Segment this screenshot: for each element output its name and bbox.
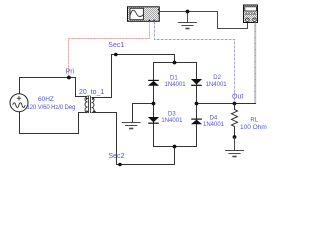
wire multimeter plus probe to Out node (gray): [254, 23, 256, 104]
svg-text:1N4001: 1N4001: [161, 118, 183, 124]
wire bridge top rail: [154, 62, 197, 64]
wire bridge left midpoint to ground: [133, 104, 155, 123]
transformer T1 primary winding: [85, 97, 88, 113]
wire bridge left rail: [153, 62, 155, 147]
svg-text:60HZ: 60HZ: [38, 96, 54, 103]
transformer T1 core: [89, 96, 91, 113]
ground (under resistor RL): [225, 137, 244, 157]
resistor RL 100 Ohm: [232, 104, 238, 138]
wire bridge right rail: [196, 62, 198, 147]
wire oscilloscope channel B probe to node Out (blue): [155, 22, 235, 104]
oscilloscope XSC1: [128, 7, 160, 21]
junction node Sec2: [118, 163, 122, 167]
svg-text:Out: Out: [232, 94, 243, 101]
svg-text:D3: D3: [168, 111, 176, 117]
junction bridge left midpoint: [152, 102, 156, 106]
svg-text:Sec2: Sec2: [108, 153, 124, 160]
AC source V1 120V 60Hz: [10, 94, 28, 112]
wire node Pri to transformer primary top: [69, 78, 88, 97]
diode D3: [148, 117, 159, 124]
wire secondary top via node Sec1 to bridge top: [92, 55, 175, 98]
junction node Pri: [67, 76, 71, 80]
svg-text:120 V/60 Hz/0 Deg: 120 V/60 Hz/0 Deg: [27, 105, 76, 111]
junction on bottom rail: [173, 145, 177, 149]
wire secondary bottom via node Sec2 to bridge bottom: [92, 113, 175, 165]
svg-text:1N4001: 1N4001: [165, 82, 187, 88]
svg-text:D1: D1: [170, 75, 178, 81]
svg-text:20_to_1: 20_to_1: [79, 89, 104, 96]
transformer T1 polarity arrows: [86, 97, 96, 113]
wire bridge bottom rail: [154, 146, 197, 148]
svg-text:1N4001: 1N4001: [203, 122, 225, 128]
svg-text:100 Ohm: 100 Ohm: [240, 124, 267, 131]
wire V1 plus terminal to node Pri: [20, 78, 69, 94]
transformer T1 secondary winding: [92, 98, 95, 113]
junction bridge right midpoint: [195, 102, 199, 106]
ground (top, oscilloscope/multimeter net): [178, 12, 197, 29]
diode D2: [191, 79, 202, 86]
junction node Out: [233, 102, 237, 106]
svg-text:1N4001: 1N4001: [206, 82, 228, 88]
junction node Sec1: [114, 53, 118, 57]
wire V1 minus terminal to transformer primary bottom: [20, 112, 88, 134]
wire oscilloscope ground terminal to ground and multimeter minus: [160, 12, 248, 29]
multimeter XMM1: [244, 5, 258, 23]
junction resistor bottom: [233, 135, 237, 139]
diode D1: [148, 80, 159, 86]
diode D4: [191, 119, 202, 125]
svg-text:RL: RL: [250, 117, 258, 123]
svg-text:Pri: Pri: [66, 69, 75, 76]
wire bridge right midpoint to Out node and multimeter: [197, 103, 257, 105]
junction on top rail: [173, 61, 177, 65]
svg-text:Sec1: Sec1: [108, 42, 124, 49]
ground (bridge left midpoint): [122, 123, 141, 129]
svg-text:D2: D2: [213, 75, 221, 81]
junction at top ground: [186, 10, 190, 14]
svg-text:D4: D4: [210, 115, 218, 121]
wire oscilloscope channel A probe to node Pri (red): [69, 22, 150, 78]
